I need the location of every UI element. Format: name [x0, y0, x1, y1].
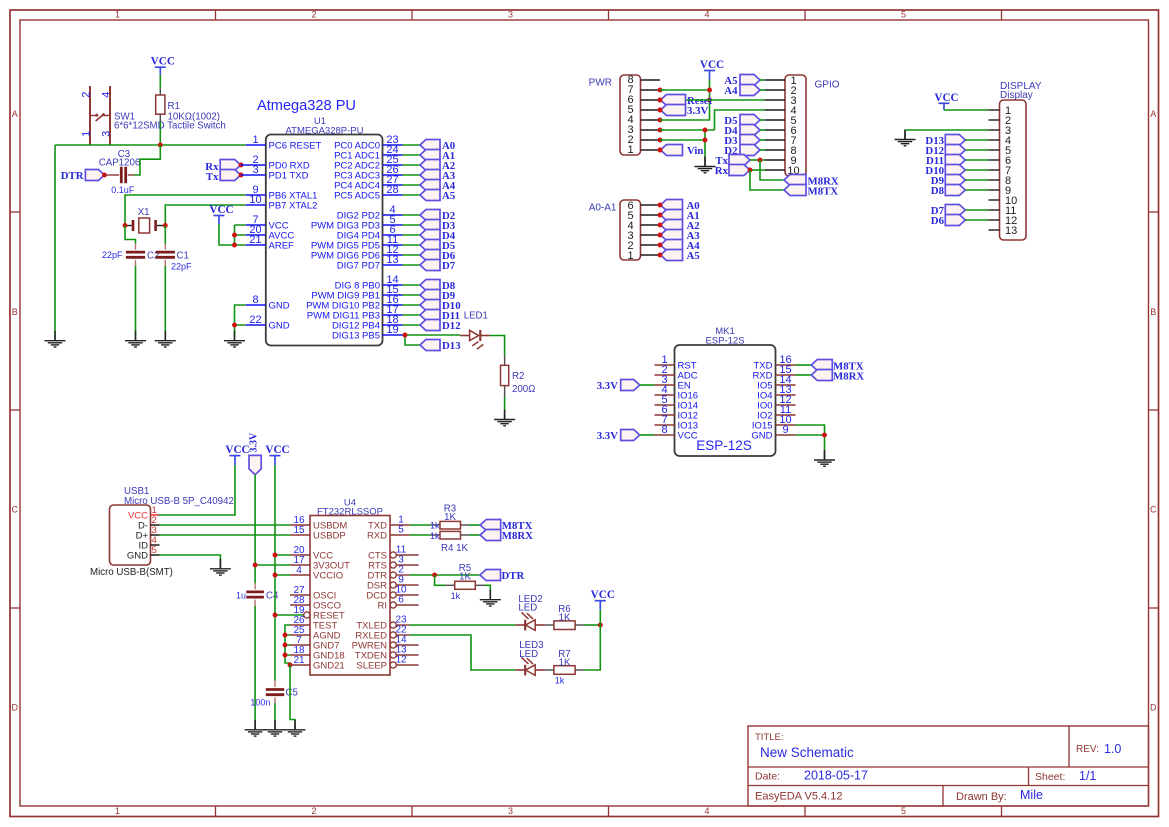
net flag A5 (A0-A1): [661, 250, 700, 263]
wire (VCC rail): [275, 465, 304, 681]
svg-text:SLEEP: SLEEP: [356, 661, 387, 672]
wire: [403, 264, 421, 266]
junction: [288, 663, 293, 668]
svg-text:5: 5: [901, 10, 906, 20]
svg-text:PWR: PWR: [589, 78, 612, 89]
net flag D3: [420, 220, 456, 233]
svg-text:D: D: [12, 703, 19, 713]
wire: [403, 214, 421, 216]
ground: [494, 410, 515, 426]
pin 6 of DISPLAY: [989, 159, 1000, 161]
pin 7 of PWR: [641, 89, 661, 91]
junction: [403, 333, 408, 338]
wire: [965, 139, 988, 141]
wire (DISPLAY pin3 gnd): [905, 130, 989, 132]
junction: [253, 563, 258, 568]
net flag A1 (A0-A1): [661, 210, 700, 223]
pin 2 (PD0 RXD) of U1: [241, 154, 310, 171]
net flag Vin: [661, 145, 704, 158]
wire (GPIO4 to GND net): [715, 110, 766, 130]
ground: [155, 331, 176, 347]
connector GPIO header: [785, 75, 840, 177]
net flag A4 (A0-A1): [661, 240, 701, 253]
svg-text:4: 4: [704, 806, 709, 816]
svg-text:VCC: VCC: [700, 59, 724, 71]
svg-text:DIG7 PD7: DIG7 PD7: [337, 261, 380, 272]
net flag Tx: [206, 170, 241, 183]
net flag D13: [420, 340, 461, 353]
svg-text:1k: 1k: [430, 531, 440, 541]
wire (D13 / LED1 net): [403, 335, 461, 345]
capacitor C4: [236, 583, 279, 606]
LED LED3: [515, 640, 545, 675]
wire: [54, 145, 56, 341]
pin 21 (GND21) of U4: [290, 655, 345, 672]
wire (XTAL2): [165, 205, 246, 226]
svg-text:22pF: 22pF: [102, 250, 123, 260]
svg-text:200Ω: 200Ω: [512, 384, 535, 395]
wire: [403, 194, 421, 196]
pin 2 of PWR: [641, 139, 661, 141]
svg-text:LED: LED: [518, 603, 537, 614]
resistor R3: [430, 504, 469, 531]
svg-text:GPIO: GPIO: [815, 80, 840, 91]
wire: [403, 244, 421, 246]
power flag VCC (R1 pull-up): [151, 56, 175, 75]
wire: [410, 624, 516, 626]
power flag VCC (FT232): [265, 444, 289, 465]
pin 12 (IO0) of MK1: [757, 394, 795, 411]
pin 1 of GPIO: [765, 79, 785, 81]
wire: [965, 159, 988, 161]
net flag A0: [420, 140, 455, 153]
junction: [658, 138, 663, 143]
net flag D10 (DISPLAY): [925, 165, 965, 178]
net flag DTR (FT232): [480, 570, 524, 583]
pin 5 of GPIO: [765, 119, 785, 121]
net flag A3 (A0-A1): [661, 230, 701, 243]
svg-text:3.3V: 3.3V: [597, 430, 618, 442]
junction: [283, 633, 288, 638]
pin 11 (IO2) of MK1: [757, 404, 795, 421]
svg-text:Drawn By:: Drawn By:: [956, 791, 1007, 803]
svg-text:VCCIO: VCCIO: [313, 571, 343, 582]
pin 8 of GPIO: [765, 149, 785, 151]
ground: [285, 720, 306, 736]
pin 19 (RESET) of U4: [293, 605, 344, 622]
net flag D12: [420, 320, 461, 333]
wire (XTAL1): [125, 195, 246, 226]
svg-text:2: 2: [80, 92, 92, 98]
net flag D8 (DISPLAY): [931, 185, 966, 198]
crystal X1: [125, 207, 165, 233]
svg-text:ESP-12S: ESP-12S: [696, 438, 752, 453]
svg-text:3: 3: [508, 10, 513, 20]
pin 3 (EN) of MK1: [655, 374, 691, 391]
svg-text:C5: C5: [286, 688, 298, 699]
svg-text:REV:: REV:: [1076, 744, 1099, 755]
svg-text:DIG13 PB5: DIG13 PB5: [332, 331, 380, 342]
svg-text:LED1: LED1: [464, 311, 488, 322]
svg-text:19: 19: [386, 324, 398, 336]
svg-text:1: 1: [115, 10, 120, 20]
junction: [658, 108, 663, 113]
net flag D12 (DISPLAY): [925, 145, 965, 158]
svg-text:C1: C1: [177, 251, 189, 262]
svg-text:1: 1: [80, 131, 92, 137]
pin 7 (GND7) of U4: [290, 635, 339, 652]
net flag D4 (GPIO): [724, 125, 760, 138]
svg-text:D13: D13: [442, 340, 461, 352]
svg-text:GND: GND: [751, 431, 772, 442]
pin 2 (ADC) of MK1: [655, 364, 698, 381]
pin 22 (GND) of U1: [246, 314, 290, 331]
net flag D2 (GPIO): [724, 145, 760, 158]
net flag 3.3V (vertical): [249, 432, 262, 475]
capacitor C2: [102, 244, 159, 266]
ground: [695, 157, 716, 173]
junction: [283, 643, 288, 648]
svg-text:VCC: VCC: [209, 204, 233, 216]
net flag 3.3V (PWR pin5): [661, 105, 709, 118]
svg-text:4: 4: [296, 565, 302, 576]
pin 9 (DSR) of U4: [367, 575, 419, 592]
junction: [239, 163, 244, 168]
pin 26 (PC3 ADC3) of U1: [334, 164, 402, 181]
svg-text:5: 5: [152, 545, 157, 556]
pin 11 of DISPLAY: [989, 209, 1000, 211]
net flag DTR: [61, 170, 105, 183]
power flag VCC (LED): [591, 589, 615, 610]
net flag M8TX (FT232): [480, 520, 532, 533]
net flag A5 (GPIO): [724, 75, 760, 88]
net flag A2: [420, 160, 455, 173]
pin 17 (PWM DIG11 PB3) of U1: [307, 304, 403, 321]
pin 4 of PWR: [641, 119, 661, 121]
svg-text:VCC: VCC: [591, 589, 615, 601]
resistor R7: [545, 649, 584, 686]
pin 3 of A0-A1: [641, 234, 661, 236]
junction: [658, 88, 663, 93]
junction: [163, 223, 168, 228]
wire: [944, 109, 989, 111]
pin 1 of A0-A1: [641, 254, 661, 256]
wire: [164, 266, 166, 341]
pin 27 (OSCI) of U4: [290, 585, 336, 602]
junction: [658, 243, 663, 248]
pin 3 of GPIO: [765, 99, 785, 101]
svg-text:8: 8: [252, 294, 258, 306]
wire (Reset to GPIO3): [686, 99, 765, 101]
IC MK1 ESP-12S body: [675, 326, 776, 456]
ground: [245, 720, 266, 736]
svg-text:FT232RLSSOP: FT232RLSSOP: [317, 506, 383, 517]
pin 13 (IO4) of MK1: [757, 384, 795, 401]
net flag D11: [420, 310, 460, 323]
wire: [965, 169, 988, 171]
junction: [232, 233, 237, 238]
wire: [760, 129, 765, 131]
svg-text:5: 5: [901, 806, 906, 816]
pin 4 (ID) of USB1: [139, 535, 160, 552]
junction: [822, 433, 827, 438]
svg-text:0.1uF: 0.1uF: [111, 185, 135, 195]
svg-text:VCC: VCC: [151, 56, 175, 68]
pin 20 (AVCC) of U1: [246, 224, 295, 241]
svg-text:21: 21: [293, 655, 305, 666]
wire: [403, 314, 421, 316]
junction: [658, 148, 663, 153]
svg-text:5: 5: [398, 525, 404, 536]
junction: [658, 108, 663, 113]
svg-text:3: 3: [100, 131, 112, 137]
wire: [640, 434, 655, 436]
power flag VCC (DISPLAY): [934, 92, 958, 110]
svg-text:X1: X1: [138, 207, 150, 218]
wire: [490, 336, 505, 356]
pin 15 (RXD) of MK1: [752, 364, 795, 381]
net flag 3.3V (ESP VCC): [597, 430, 640, 443]
svg-text:1k: 1k: [451, 591, 461, 601]
wire: [274, 703, 276, 721]
wire: [965, 209, 988, 211]
net flag A4: [420, 180, 456, 193]
ground: [265, 720, 286, 736]
wire: [403, 324, 421, 326]
wire: [585, 624, 601, 626]
pin 7 (VCC) of U1: [246, 214, 289, 231]
junction: [273, 573, 278, 578]
junction: [102, 173, 107, 178]
pin 1 (PC6 RESET) of U1: [246, 134, 322, 151]
svg-text:Vin: Vin: [687, 145, 703, 157]
pin 18 (GND18) of U4: [290, 645, 345, 662]
pin 12 (PWM DIG6 PD6) of U1: [311, 244, 403, 261]
svg-text:Micro USB-B 5P_C40942: Micro USB-B 5P_C40942: [124, 496, 234, 507]
pin 9 of DISPLAY: [989, 189, 1000, 191]
pin 1 (VCC) of USB1: [128, 505, 159, 522]
connector A0-A1 header: [589, 200, 641, 262]
junction: [658, 148, 663, 153]
pin 16 (PWM DIG10 PB2) of U1: [306, 294, 402, 311]
svg-text:GND: GND: [127, 551, 148, 562]
net flag D8: [420, 280, 456, 293]
pin 10 of GPIO: [765, 169, 785, 171]
wire: [403, 164, 421, 166]
capacitor C3: [99, 149, 140, 195]
pin 10 (IO15) of MK1: [752, 414, 796, 431]
pin 6 of GPIO: [765, 129, 785, 131]
net flag D9: [420, 290, 456, 303]
wire: [469, 524, 480, 526]
pin 6 of PWR: [641, 99, 661, 101]
net flag D4: [420, 230, 456, 243]
pin 6 (IO12) of MK1: [655, 404, 699, 421]
pin 11 (PWM DIG5 PD5) of U1: [311, 234, 403, 251]
svg-text:Display: Display: [1000, 90, 1033, 101]
pin 4 of DISPLAY: [989, 139, 1000, 141]
net flag D7 (DISPLAY): [931, 205, 966, 218]
svg-text:3: 3: [508, 806, 513, 816]
svg-text:D12: D12: [442, 320, 461, 332]
svg-text:1K: 1K: [559, 657, 571, 668]
svg-text:A5: A5: [687, 250, 700, 262]
svg-text:2: 2: [311, 10, 316, 20]
svg-text:10: 10: [249, 194, 261, 206]
svg-text:Micro USB-B(SMT): Micro USB-B(SMT): [90, 567, 173, 578]
pin 3 (RTS) of U4: [368, 555, 418, 572]
pin 9 of GPIO: [765, 159, 785, 161]
svg-text:VCC: VCC: [678, 431, 698, 442]
wire: [159, 121, 161, 145]
wire: [410, 524, 431, 526]
wire: [403, 144, 421, 146]
wire (Tx to M8RX): [760, 160, 784, 180]
wire (IO15/GND to ground): [796, 425, 825, 452]
pin 8 (VCC) of MK1: [655, 424, 698, 441]
ground: [210, 559, 231, 575]
wire: [403, 304, 421, 306]
svg-text:ESP-12S: ESP-12S: [705, 336, 744, 347]
pin 2 of A0-A1: [641, 244, 661, 246]
ground: [125, 331, 146, 347]
wire: [640, 384, 655, 386]
pin 5 (IO14) of MK1: [655, 394, 699, 411]
pin 22 (RXLED) of U4: [355, 625, 409, 642]
wire: [159, 75, 161, 89]
junction: [598, 623, 603, 628]
net flag M8RX (GPIO): [784, 175, 839, 188]
pin 13 (DIG7 PD7) of U1: [337, 254, 403, 271]
svg-text:13: 13: [1005, 225, 1017, 237]
pin 14 (PWREN) of U4: [352, 635, 419, 652]
svg-text:USBDP: USBDP: [313, 531, 346, 542]
svg-text:R2: R2: [512, 371, 524, 382]
wire: [760, 139, 765, 141]
svg-text:Sheet:: Sheet:: [1035, 771, 1065, 783]
junction: [232, 243, 237, 248]
wire (RESET net): [55, 144, 246, 146]
junction: [658, 223, 663, 228]
net flag D11 (DISPLAY): [926, 155, 965, 168]
pin 7 of DISPLAY: [989, 169, 1000, 171]
wire: [965, 219, 988, 221]
pin 1 of DISPLAY: [989, 109, 1000, 111]
svg-text:D8: D8: [931, 185, 945, 197]
resistor R4: [430, 531, 469, 554]
pin 7 (IO13) of MK1: [655, 414, 699, 431]
net flag D2: [420, 210, 455, 223]
pin 8 of PWR: [641, 79, 661, 81]
svg-text:Date:: Date:: [755, 771, 780, 783]
pin 10 (DCD) of U4: [366, 585, 418, 602]
pin 10 (PB7 XTAL2) of U1: [246, 194, 318, 211]
svg-text:GND: GND: [269, 321, 290, 332]
capacitor C1: [156, 244, 192, 272]
pin 5 of A0-A1: [641, 214, 661, 216]
pin 5 (GND) of USB1: [127, 545, 160, 562]
svg-text:GND21: GND21: [313, 661, 345, 672]
svg-text:VCC: VCC: [265, 444, 289, 456]
junction: [283, 653, 288, 658]
wire: [403, 294, 421, 296]
svg-text:1.0: 1.0: [1104, 742, 1121, 756]
wire (GND pins): [235, 305, 246, 341]
pin 9 (PB6 XTAL1) of U1: [246, 184, 318, 201]
svg-text:3.3V: 3.3V: [249, 432, 260, 453]
svg-text:R1: R1: [168, 101, 180, 112]
svg-text:3.3V: 3.3V: [687, 105, 708, 117]
pin 12 (SLEEP) of U4: [356, 655, 418, 672]
wire: [965, 189, 988, 191]
pin 6 of A0-A1: [641, 204, 661, 206]
ground: [895, 130, 916, 146]
wire: [760, 89, 765, 91]
pin 3 of DISPLAY: [989, 129, 1000, 131]
wire (USB D- to USBDM): [160, 524, 291, 526]
svg-text:1: 1: [627, 144, 633, 156]
svg-text:D: D: [1150, 703, 1157, 713]
svg-text:1K: 1K: [444, 512, 456, 523]
pin 4 (IO16) of MK1: [655, 384, 699, 401]
svg-text:EasyEDA V5.4.12: EasyEDA V5.4.12: [755, 791, 842, 803]
pin 5 (PWM DIG3 PD3) of U1: [311, 214, 403, 231]
svg-text:Tx: Tx: [206, 171, 219, 183]
wire: [125, 226, 136, 244]
svg-text:C: C: [12, 505, 19, 515]
svg-text:CAP1206: CAP1206: [99, 158, 140, 169]
junction: [273, 613, 278, 618]
resistor R1: [156, 88, 220, 122]
svg-text:12: 12: [395, 655, 407, 666]
ground: [480, 590, 501, 606]
junction: [658, 233, 663, 238]
IC U4 FT232RLSSOP body: [310, 498, 390, 676]
svg-text:GND: GND: [269, 301, 290, 312]
junction: [658, 253, 663, 258]
junction: [123, 223, 128, 228]
svg-text:13: 13: [386, 254, 398, 266]
svg-text:M8RX: M8RX: [833, 370, 864, 382]
power flag VCC (AVCC): [209, 204, 233, 224]
svg-text:1u: 1u: [236, 591, 246, 601]
wire: [965, 149, 988, 151]
net flag Rx (GPIO10): [715, 165, 750, 178]
svg-text:R4 1K: R4 1K: [441, 543, 468, 554]
svg-text:4: 4: [100, 92, 112, 98]
svg-text:VCC: VCC: [934, 92, 958, 104]
svg-text:3.3V: 3.3V: [597, 380, 618, 392]
svg-text:VCC: VCC: [225, 444, 249, 456]
pin 6 (DIG4 PD4) of U1: [337, 224, 403, 241]
svg-text:1: 1: [252, 134, 258, 146]
svg-text:1k: 1k: [430, 521, 440, 531]
svg-text:B: B: [12, 307, 18, 317]
pin 4 of GPIO: [765, 109, 785, 111]
svg-text:DTR: DTR: [61, 170, 84, 182]
pin 23 (PC0 ADC0) of U1: [334, 134, 402, 151]
wire: [403, 184, 421, 186]
wire: [410, 574, 481, 576]
wire: [435, 575, 446, 585]
wire (USB VCC): [159, 465, 236, 515]
pin 2 of DISPLAY: [989, 119, 1000, 121]
pin 25 (AGND) of U4: [290, 625, 341, 642]
svg-text:B: B: [1150, 307, 1156, 317]
pin 18 (DIG12 PB4) of U1: [332, 314, 403, 331]
pin 3 of PWR: [641, 129, 661, 131]
svg-text:PD1 TXD: PD1 TXD: [269, 171, 309, 182]
